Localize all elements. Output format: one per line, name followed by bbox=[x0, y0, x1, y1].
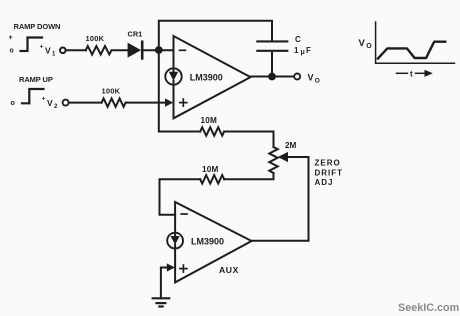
svg-text:V: V bbox=[359, 38, 366, 49]
potentiometer 2M (R5) body bbox=[269, 141, 296, 173]
terminal VO bbox=[294, 74, 300, 80]
source V2 ramp-up step symbol bbox=[11, 75, 59, 110]
svg-text:o: o bbox=[10, 48, 14, 55]
svg-text:RAMP DOWN: RAMP DOWN bbox=[14, 22, 61, 31]
U2 inverting input minus sign bbox=[181, 213, 187, 215]
svg-text:LM3900: LM3900 bbox=[191, 237, 224, 247]
capacitor value labels C / 1 uF bbox=[294, 35, 311, 56]
svg-text:2M: 2M bbox=[285, 141, 297, 150]
wire node A up and top rail to capacitor C bbox=[159, 21, 272, 48]
output waveform graph axes bbox=[376, 22, 455, 63]
capacitor C plates bbox=[257, 41, 287, 50]
graph time axis label t with arrow bbox=[397, 70, 433, 79]
U2 current-source (Norton) symbol bbox=[167, 233, 183, 249]
svg-text:+: + bbox=[40, 44, 44, 51]
svg-text:100K: 100K bbox=[102, 87, 121, 96]
svg-text:LM3900: LM3900 bbox=[190, 72, 223, 82]
svg-text:O: O bbox=[315, 77, 320, 84]
svg-text:SeekIC.com: SeekIC.com bbox=[398, 302, 459, 314]
op-amp U2 LM3900 (AUX) triangle bbox=[175, 202, 252, 282]
wire capacitor C to output node B bbox=[271, 52, 273, 77]
svg-text:F: F bbox=[306, 46, 311, 55]
svg-text:O: O bbox=[366, 43, 372, 50]
ground bbox=[153, 298, 170, 306]
wire R1 to CR1 bbox=[112, 49, 128, 51]
svg-text:t: t bbox=[410, 70, 413, 79]
svg-text:ADJ: ADJ bbox=[315, 178, 334, 187]
svg-text:ZERO: ZERO bbox=[315, 159, 341, 168]
U1 inverting input minus sign bbox=[180, 49, 186, 51]
wire R3 to potentiometer R5 top bbox=[224, 132, 273, 148]
label ZERO DRIFT ADJ bbox=[315, 159, 344, 188]
svg-text:1: 1 bbox=[52, 52, 56, 58]
U1 non-inverting input plus sign bbox=[180, 99, 187, 106]
terminal V1 bbox=[60, 48, 66, 54]
svg-text:o: o bbox=[11, 100, 15, 107]
node A junction dot bbox=[155, 46, 163, 54]
svg-text:CR1: CR1 bbox=[128, 30, 143, 39]
svg-text:V: V bbox=[308, 72, 314, 82]
resistor 10M (R4) bbox=[200, 165, 224, 184]
resistor 100K (R2) bbox=[102, 87, 126, 107]
svg-text:AUX: AUX bbox=[219, 265, 239, 275]
svg-text:DRIFT: DRIFT bbox=[315, 168, 344, 177]
node label VO bbox=[308, 72, 320, 84]
wire V1 to R1 bbox=[66, 49, 86, 51]
node B output junction dot bbox=[268, 73, 276, 81]
svg-text:V: V bbox=[47, 98, 53, 108]
svg-text:+: + bbox=[42, 96, 46, 103]
wire ground to U2 non-inverting input with arrowhead bbox=[161, 263, 175, 297]
svg-text:V: V bbox=[45, 46, 51, 56]
svg-text:C: C bbox=[295, 35, 301, 44]
U1 current-source (Norton) symbol bbox=[165, 68, 181, 84]
svg-text:10M: 10M bbox=[202, 165, 219, 174]
resistor 100K (R1) bbox=[86, 34, 112, 55]
svg-text:μ: μ bbox=[301, 49, 305, 56]
svg-text:2: 2 bbox=[54, 104, 58, 110]
svg-text:10M: 10M bbox=[201, 116, 218, 125]
wire U1 output to terminal VO bbox=[251, 76, 295, 78]
terminal V2 bbox=[63, 100, 69, 106]
source V1 ramp-down step symbol bbox=[9, 22, 61, 58]
wire node A down to resistor R3 (crosses V2 wire, no junction) bbox=[159, 52, 200, 132]
U2 non-inverting input plus sign bbox=[180, 265, 187, 272]
resistor 10M (R3) bbox=[200, 116, 224, 136]
wire CR1 to node A and U1 inverting input bbox=[143, 49, 174, 51]
wire V2 to R2 bbox=[69, 102, 102, 104]
graph label VO bbox=[359, 38, 373, 50]
wire R5 bottom to resistor R4 bbox=[224, 173, 273, 179]
wire R2 to U1 non-inverting input with arrowhead bbox=[126, 98, 174, 106]
wire R4 to U2 inverting input bbox=[160, 179, 201, 214]
svg-text:RAMP UP: RAMP UP bbox=[19, 75, 53, 84]
wire U2 output up to R5 wiper bbox=[252, 157, 309, 241]
op-amp U1 LM3900 triangle bbox=[174, 36, 251, 118]
svg-text:100K: 100K bbox=[86, 34, 105, 43]
potentiometer R5 wiper arrow bbox=[278, 152, 309, 162]
diode CR1 bbox=[128, 30, 143, 59]
svg-text:1: 1 bbox=[294, 46, 299, 55]
svg-text:+: + bbox=[9, 35, 13, 42]
graph VO waveform trace bbox=[378, 42, 445, 59]
